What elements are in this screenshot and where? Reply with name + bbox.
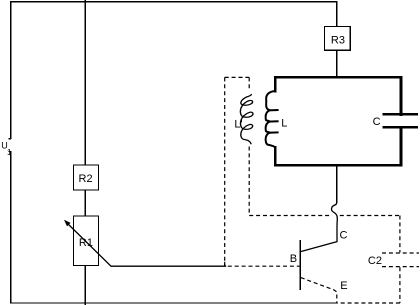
svg-text:C: C <box>373 116 381 128</box>
svg-text:E: E <box>340 280 347 292</box>
svg-text:R3: R3 <box>331 34 345 46</box>
svg-text:L: L <box>281 118 287 130</box>
svg-text:C: C <box>340 229 348 241</box>
svg-text:R1: R1 <box>79 237 93 249</box>
svg-text:B: B <box>290 253 297 265</box>
svg-text:R2: R2 <box>79 173 93 185</box>
svg-text:C2: C2 <box>368 255 382 267</box>
svg-text:1: 1 <box>7 148 12 157</box>
svg-text:L': L' <box>234 119 242 131</box>
